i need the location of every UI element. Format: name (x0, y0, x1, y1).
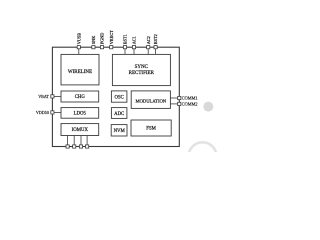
pin GPIO1 (66, 145, 69, 148)
svg-text:RECTIFIER: RECTIFIER (129, 71, 155, 76)
watermark disc (203, 102, 213, 112)
watermark ring arc (189, 142, 217, 170)
block SYNC RECTIFIER (112, 54, 170, 85)
wire VUSB to WIRELINE (78, 49, 80, 55)
pin BST2 (154, 46, 157, 49)
svg-text:BST1: BST1 (123, 34, 128, 44)
svg-text:VDD50: VDD50 (36, 110, 49, 115)
svg-text:MODULATION: MODULATION (135, 99, 166, 104)
svg-text:NVM: NVM (114, 129, 126, 134)
block IOMUX (61, 124, 99, 136)
svg-text:IOMUX: IOMUX (72, 128, 89, 133)
wire AC1 to SYNC RECTIFIER (133, 49, 135, 55)
pin VRECT (110, 46, 113, 49)
pin VDD50 (51, 111, 54, 114)
svg-text:CHG: CHG (75, 95, 86, 100)
pin GPIO3 (79, 145, 82, 148)
svg-text:ADC: ADC (114, 112, 124, 117)
block WIRELINE (61, 54, 99, 85)
svg-text:OSC: OSC (115, 95, 124, 100)
wire BST2 to SYNC RECTIFIER (155, 49, 157, 55)
block OSC (111, 91, 127, 102)
pin COMM1 (178, 96, 181, 99)
svg-text:LDO5: LDO5 (74, 111, 87, 116)
svg-text:BST2: BST2 (153, 34, 158, 44)
wire IOMUX to bottom pin 1 (67, 136, 69, 145)
svg-text:WIRELINE: WIRELINE (68, 70, 92, 75)
wire MODULATION to COMM1 (170, 97, 177, 99)
block ADC (111, 108, 127, 119)
svg-text:SYNC: SYNC (135, 65, 149, 70)
wire BST1 to SYNC RECTIFIER (124, 49, 126, 55)
pin SNK (92, 46, 95, 49)
pin COMM2 (178, 102, 181, 105)
wire VDD50 to LDO5 (54, 111, 61, 113)
svg-text:VUSB: VUSB (76, 33, 81, 45)
svg-text:SNK: SNK (91, 35, 96, 44)
IC outer boundary box (52, 47, 179, 146)
svg-text:AC2: AC2 (146, 36, 151, 44)
block FSM (131, 120, 171, 136)
svg-text:PGND: PGND (100, 33, 105, 45)
pin AC1 (132, 46, 135, 49)
pin BST1 (123, 46, 126, 49)
wire IOMUX to bottom pin 2 (73, 136, 75, 145)
pin VUSB (77, 46, 80, 49)
block LDO5 (61, 108, 99, 119)
wire IOMUX to bottom pin 4 (86, 136, 88, 145)
svg-text:AC1: AC1 (132, 36, 137, 44)
block CHG (61, 91, 99, 102)
wire MODULATION to COMM2 (170, 103, 177, 105)
svg-text:COMM1: COMM1 (182, 96, 198, 101)
block NVM (111, 125, 127, 136)
svg-text:VBAT: VBAT (38, 94, 49, 99)
svg-text:VRECT: VRECT (109, 30, 114, 44)
block MODULATION (131, 91, 170, 109)
svg-text:COMM2: COMM2 (182, 101, 198, 106)
pin VBAT (51, 95, 54, 98)
pin GPIO4 (86, 145, 89, 148)
svg-text:FSM: FSM (146, 127, 156, 132)
pin GPIO2 (73, 145, 76, 148)
wire VBAT to CHG (54, 95, 61, 97)
pin AC2 (147, 46, 150, 49)
pin PGND (100, 46, 103, 49)
wire IOMUX to bottom pin 3 (80, 136, 82, 145)
wire AC2 to SYNC RECTIFIER (147, 49, 149, 55)
